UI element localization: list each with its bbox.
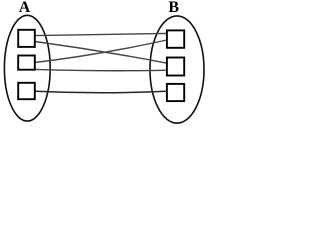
svg-text:A: A (19, 0, 31, 16)
svg-text:B: B (168, 0, 179, 16)
